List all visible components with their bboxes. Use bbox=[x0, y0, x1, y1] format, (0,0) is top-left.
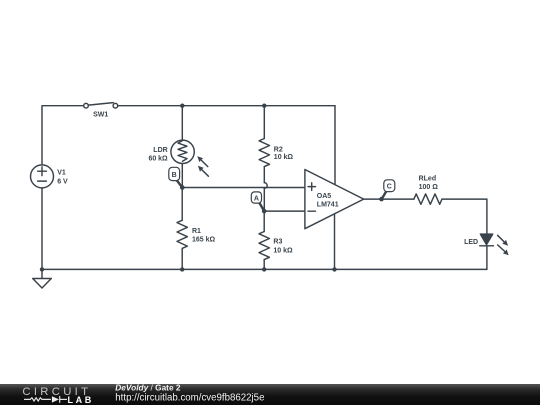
junction: top rail / R2 branch bbox=[262, 104, 266, 108]
wire: V1 positive terminal up to top-left rail corner bbox=[42, 106, 84, 165]
svg-text:R3: R3 bbox=[273, 239, 282, 246]
LED bbox=[464, 234, 509, 255]
svg-text:LM741: LM741 bbox=[317, 202, 339, 209]
wire: LDR bottom to node B bbox=[181, 164, 183, 188]
node B bbox=[169, 167, 185, 190]
node C bbox=[379, 180, 395, 202]
svg-text:V1: V1 bbox=[57, 170, 66, 177]
wire: R3 bottom to bottom rail bbox=[263, 260, 265, 270]
svg-text:LED: LED bbox=[464, 239, 478, 246]
svg-text:OA5: OA5 bbox=[317, 193, 332, 200]
svg-text:SW1: SW1 bbox=[93, 111, 108, 118]
op-amp OA5 LM741 bbox=[305, 170, 364, 229]
wire: op-amp V+ supply drop bbox=[334, 106, 336, 185]
footer title: DeVoldy / Gate 2 bbox=[115, 383, 181, 393]
wire: top rail down to R2 bbox=[263, 106, 265, 139]
resistor R1, 165 kOhm bbox=[177, 220, 216, 248]
wire: LED cathode down to bottom rail corner bbox=[486, 246, 488, 270]
svg-text:DeVoldy / Gate 2: DeVoldy / Gate 2 bbox=[115, 383, 181, 393]
voltage source V1, 6 V bbox=[31, 165, 69, 188]
wire: node B down to R1 bbox=[181, 188, 183, 221]
wire: hop down to node A bbox=[263, 188, 265, 211]
svg-text:LDR: LDR bbox=[153, 147, 167, 154]
svg-text:B: B bbox=[172, 172, 177, 179]
svg-text:http://circuitlab.com/cve9fb86: http://circuitlab.com/cve9fb8622j5e bbox=[115, 392, 264, 403]
wire hop over non-inverting input wire (no connection) bbox=[264, 183, 267, 189]
wire: top rail from switch to op-amp V+ drop at x=335 bbox=[118, 105, 335, 107]
svg-text:6 V: 6 V bbox=[57, 178, 68, 185]
switch SW1 bbox=[84, 103, 118, 119]
resistor R3, 10 kOhm bbox=[259, 232, 293, 260]
wire: V1 negative terminal down to ground rail bbox=[41, 188, 43, 269]
footer url bbox=[115, 392, 264, 403]
junction: bottom rail / op-amp V- bbox=[332, 267, 336, 271]
wire: node B to op-amp non-inverting input bbox=[182, 187, 305, 189]
wire: bottom rail bbox=[42, 268, 487, 270]
footer bar bbox=[0, 384, 540, 405]
junction: bottom rail / R3 bbox=[262, 267, 266, 271]
wire: R2 bottom down to hop bbox=[263, 167, 265, 183]
junction: top rail / LDR branch bbox=[180, 104, 184, 108]
wire: RLed to LED (corner at right) bbox=[442, 199, 487, 234]
junction: bottom rail / R1 bbox=[180, 267, 184, 271]
ground bbox=[33, 269, 52, 288]
photoresistor LDR, 60 kOhm bbox=[148, 140, 208, 176]
CircuitLab logo bbox=[22, 386, 93, 405]
svg-text:A: A bbox=[254, 195, 259, 202]
wire: node A down to R3 bbox=[263, 211, 265, 231]
junction: ground / bottom rail bbox=[40, 267, 44, 271]
wire: top rail down to LDR top bbox=[181, 106, 183, 140]
svg-text:RLed: RLed bbox=[419, 176, 437, 183]
svg-text:60 kΩ: 60 kΩ bbox=[148, 155, 168, 162]
svg-text:LAB: LAB bbox=[68, 395, 94, 405]
svg-text:10 kΩ: 10 kΩ bbox=[273, 247, 293, 254]
svg-text:R2: R2 bbox=[274, 147, 283, 154]
wire: op-amp V- supply to bottom rail bbox=[334, 214, 336, 270]
wire: op-amp output to RLed bbox=[364, 198, 414, 200]
svg-text:165 kΩ: 165 kΩ bbox=[192, 237, 216, 244]
svg-text:10 kΩ: 10 kΩ bbox=[274, 154, 294, 161]
svg-text:100 Ω: 100 Ω bbox=[419, 184, 439, 191]
resistor R2, 10 kOhm bbox=[259, 139, 293, 167]
wire: node A to op-amp inverting input bbox=[264, 210, 305, 212]
node A bbox=[251, 192, 266, 214]
svg-text:R1: R1 bbox=[192, 228, 201, 235]
resistor RLed, 100 Ohm bbox=[414, 176, 442, 205]
svg-text:C: C bbox=[387, 184, 392, 191]
wire: R1 bottom to bottom rail bbox=[181, 248, 183, 269]
